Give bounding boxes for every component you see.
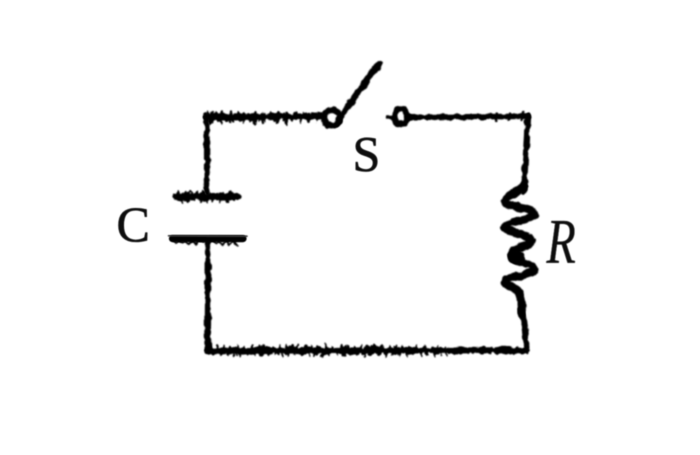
wire left vertical lower segment: [205, 243, 211, 350]
switch S left contact circle: [324, 110, 340, 126]
svg-text:R: R: [546, 208, 576, 278]
label C: [117, 196, 150, 252]
switch S right contact circle: [388, 109, 408, 125]
capacitor C top plate: [177, 191, 238, 202]
label R: [546, 208, 576, 278]
label S: [353, 126, 381, 182]
wire right vertical upper segment: [524, 116, 528, 193]
wire top-right horizontal segment: [409, 113, 528, 121]
svg-text:S: S: [353, 126, 381, 182]
svg-text:C: C: [117, 196, 150, 252]
resistor R ink blob: [506, 248, 527, 265]
wire right vertical lower segment: [522, 310, 526, 349]
capacitor C bottom plate: [169, 236, 248, 245]
switch S lever arm: [336, 62, 382, 124]
wire top-left horizontal segment: [206, 112, 323, 125]
wire bottom horizontal segment: [208, 345, 527, 356]
wire left vertical upper segment: [203, 115, 209, 193]
resistor R zigzag body: [505, 187, 535, 314]
